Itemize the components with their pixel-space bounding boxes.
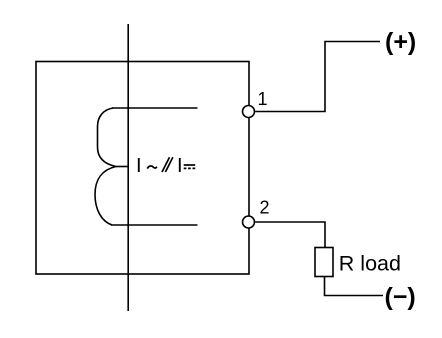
double slash symbol [162,157,173,172]
winding center tap tick wire [116,166,128,168]
wire terminal 1 to (+) [255,42,380,112]
DC symbol solid bar [184,164,196,166]
svg-text:(+): (+) [385,28,416,56]
wire resistor to (-) [325,277,384,296]
transducer body box [36,62,249,275]
secondary winding bottom lead wire [111,224,198,226]
svg-text:(−): (−) [385,283,416,311]
terminal 1 [243,106,255,118]
wire terminal 2 to resistor [255,222,325,248]
winding hump upper [98,108,117,167]
svg-text:R load: R load [339,251,401,275]
svg-text:I: I [177,155,183,177]
DC symbol dashed bar [184,167,196,169]
winding hump lower [95,167,116,226]
primary conductor wire (vertical) [127,24,129,311]
svg-text:1: 1 [258,89,268,109]
svg-text:2: 2 [260,198,270,218]
resistor R load [315,248,333,277]
tilde (AC) symbol [147,166,157,169]
svg-text:I: I [136,155,142,177]
terminal 2 [243,216,255,228]
secondary winding top lead wire [112,107,198,109]
